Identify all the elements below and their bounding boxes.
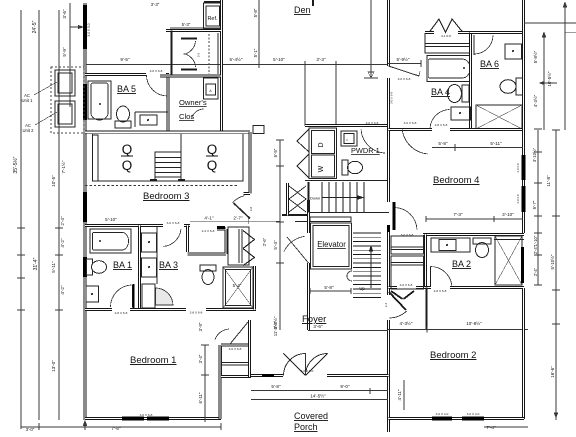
right dim ticks: [534, 129, 560, 324]
BA4 divider wall: [469, 33, 472, 131]
bedroom1 east wall: [219, 345, 222, 419]
BA4 south wall: [389, 128, 471, 131]
BA2 vanity: [431, 238, 470, 252]
bedroom4 dim line: [432, 147, 523, 149]
porch door leaves: [284, 354, 328, 376]
porch door black: [333, 374, 345, 377]
svg-text:3-0 X 6-8: 3-0 X 6-8: [167, 221, 180, 225]
pwdr toilet: [342, 160, 348, 175]
svg-text:3'-3": 3'-3": [316, 57, 326, 62]
hall niche box: [253, 126, 264, 134]
bathtub BA5: [88, 81, 111, 119]
bedroom4 door leaf: [393, 202, 396, 230]
porch dim line 1: [251, 388, 388, 394]
BA3 wc room walls: [188, 229, 227, 254]
svg-text:5'-8": 5'-8": [324, 285, 334, 290]
AC unit 1 box: [55, 70, 75, 96]
svg-text:5'-11": 5'-11": [490, 141, 502, 146]
bedroom3 south dashed: [85, 185, 238, 187]
laundry bifold W: [297, 129, 309, 178]
BA3 linen bar: [132, 284, 134, 308]
bed footboard 1: [150, 179, 157, 181]
hall bifold V doors: [391, 291, 414, 299]
porch dim line 2: [251, 399, 388, 401]
b1 hall east wall: [248, 320, 251, 377]
b2 bottom dim line: [484, 426, 528, 428]
bathtub BA5 drain: [99, 103, 101, 105]
dim arrow left top: [70, 25, 83, 28]
svg-text:6'-5": 6'-5": [273, 148, 278, 157]
east wall ref/owners: [220, 0, 223, 131]
svg-text:BA 1: BA 1: [113, 260, 132, 270]
dim rail far left: [20, 10, 22, 420]
closetA door stub top: [181, 38, 197, 40]
stairs newel: [347, 271, 352, 281]
bedroom4 window bar 2: [522, 186, 526, 212]
hall door arc (bedroom4 wing): [402, 128, 428, 154]
laundry box: [309, 128, 337, 179]
porch wall east: [327, 374, 389, 377]
owners clos bottom wall: [160, 75, 221, 78]
elevator door arc: [284, 236, 305, 251]
AC unit 2 box: [55, 101, 75, 127]
ref inner: [206, 6, 220, 26]
closetA door stub bot: [181, 69, 197, 71]
svg-text:5'-4½": 5'-4½": [230, 56, 243, 62]
stairs upper border: [309, 212, 390, 214]
BA5 north wall: [85, 73, 169, 76]
toilet BA1: [87, 259, 93, 275]
svg-text:3'-9": 3'-9": [198, 322, 203, 331]
BA3 wc toilet: [200, 265, 216, 271]
svg-text:7'-6": 7'-6": [111, 426, 121, 431]
BA6 shower: [476, 105, 522, 129]
svg-text:3-0 X 6-8: 3-0 X 6-8: [400, 283, 413, 287]
den se door leaf: [389, 66, 420, 76]
BA3 wc west wall: [186, 226, 189, 253]
BA6 south wall: [470, 128, 524, 131]
laundry south wall: [305, 180, 390, 182]
svg-text:Ref.: Ref.: [207, 16, 218, 22]
bathtub BA1: [90, 229, 131, 253]
svg-text:5'-1": 5'-1": [253, 48, 258, 57]
svg-text:5'-4": 5'-4": [233, 283, 242, 288]
stair hall closet X doors: [289, 186, 306, 212]
svg-text:3-0 X 6-8: 3-0 X 6-8: [366, 121, 379, 125]
svg-text:4'-3½": 4'-3½": [400, 320, 413, 326]
svg-text:2'-6": 2'-6": [262, 237, 267, 246]
right arrow bottom: [554, 413, 557, 418]
svg-text:2-8: 2-8: [249, 207, 253, 212]
svg-text:35'-5½": 35'-5½": [12, 156, 19, 173]
BA6 sink: [505, 44, 522, 59]
svg-text:9'-5": 9'-5": [120, 57, 130, 62]
svg-text:9'-0": 9'-0": [340, 384, 350, 389]
top dim line: [170, 27, 221, 29]
right rail line: [555, 130, 557, 420]
svg-text:10'-8½": 10'-8½": [466, 320, 482, 326]
den se door arc: [419, 72, 420, 76]
bottom arrow: [83, 421, 86, 426]
porch top dim line: [308, 330, 388, 332]
svg-text:3'-3": 3'-3": [151, 2, 160, 7]
central east wall: [387, 0, 390, 432]
BA1 vanity: [86, 286, 99, 302]
svg-text:5'-8": 5'-8": [438, 141, 448, 146]
svg-text:31'-4": 31'-4": [33, 257, 39, 270]
porch dim rail r: [403, 380, 405, 410]
dim rail left 3: [58, 10, 60, 420]
bathtub BA4 drain: [463, 67, 465, 69]
svg-text:3'-6": 3'-6": [62, 9, 67, 19]
owners door arc: [191, 109, 203, 119]
svg-text:2'-4": 2'-4": [533, 267, 538, 276]
hall door leaf+arc: [389, 292, 406, 310]
BA4 door arc: [430, 110, 449, 129]
pwdr sink: [341, 131, 357, 146]
french doors BA4: [429, 19, 463, 33]
dim rail left 2: [38, 10, 40, 420]
stair hall closet: [286, 183, 289, 216]
svg-text:3-0 X 6-8: 3-0 X 6-8: [150, 69, 163, 73]
BA2 north wall: [423, 233, 524, 236]
svg-text:3'-10": 3'-10": [502, 212, 514, 217]
BA1 door arc: [111, 285, 132, 307]
right dim rail 3: [565, 31, 576, 33]
svg-text:2-4 X 6-8: 2-4 X 6-8: [202, 229, 215, 233]
svg-text:BA 3: BA 3: [159, 260, 178, 270]
svg-text:5'-8": 5'-8": [271, 384, 281, 389]
svg-text:A: A: [209, 89, 212, 93]
svg-text:4'-3½": 4'-3½": [533, 94, 538, 107]
svg-text:3'-4": 3'-4": [198, 354, 203, 363]
bedroom2 east wall: [522, 288, 525, 419]
BA1 south wall: [85, 308, 142, 311]
stairs up arrow: [369, 246, 372, 288]
bed 1 QQ line: [121, 155, 133, 157]
den witness line 1: [304, 65, 306, 127]
AC leader 1: [34, 82, 57, 95]
top wall above ref: [204, 1, 222, 3]
AC pad dashed outline: [51, 67, 84, 133]
BA1/BA3 divider wall: [138, 226, 141, 311]
svg-text:7'-1½": 7'-1½": [60, 160, 66, 173]
svg-text:W: W: [318, 165, 325, 172]
svg-text:11'-5½": 11'-5½": [273, 321, 278, 336]
b1 closet top wall: [221, 344, 248, 347]
closetA right wall: [217, 33, 219, 74]
right arrow top: [542, 2, 566, 37]
foyer dim line: [310, 288, 351, 294]
BA6 toilet: [516, 78, 523, 95]
closetA rod: [208, 34, 210, 74]
svg-text:BA 2: BA 2: [452, 259, 471, 269]
svg-text:Covered: Covered: [294, 411, 328, 421]
stair wall black bar: [387, 225, 390, 232]
hall closet 1: [391, 236, 424, 254]
den top stub: [312, 0, 314, 6]
svg-text:5'-4": 5'-4": [273, 240, 278, 250]
attic box inner: [206, 84, 216, 95]
AC unit 2 inner: [58, 104, 72, 124]
BA3 bifold doors: [243, 231, 255, 266]
svg-text:Bedroom 1: Bedroom 1: [130, 355, 176, 366]
den dim rail right: [370, 0, 372, 78]
svg-text:4'-2": 4'-2": [60, 285, 65, 295]
attic box A: [204, 78, 219, 99]
closetA left wall: [171, 31, 173, 77]
bed 1 outline: [93, 134, 156, 181]
svg-text:Porch: Porch: [294, 422, 318, 432]
svg-text:13'-0": 13'-0": [51, 360, 56, 372]
svg-text:3-0 X 4-0: 3-0 X 4-0: [436, 412, 449, 416]
stairs lower treads: [353, 233, 381, 298]
svg-text:4'-2": 4'-2": [60, 238, 65, 248]
BA5 sink: [140, 115, 157, 125]
BA1 north wall: [85, 224, 190, 227]
elevator door leaf: [287, 237, 309, 263]
bedroom4 east wall: [522, 0, 525, 233]
svg-text:7'-4": 7'-4": [486, 425, 496, 430]
foyer west wall: [307, 200, 310, 330]
svg-text:1'-10": 1'-10": [533, 235, 538, 246]
bottom dim line: [21, 426, 221, 428]
svg-text:Den: Den: [294, 5, 311, 15]
svg-text:Bedroom 3: Bedroom 3: [143, 191, 189, 202]
svg-text:4'-11": 4'-11": [397, 389, 402, 400]
toilet BA5: [117, 106, 130, 122]
svg-text:3-0 X 6-8: 3-0 X 6-8: [140, 413, 153, 417]
ref box: [204, 3, 223, 29]
svg-text:3'-6": 3'-6": [313, 324, 323, 329]
BA2 shower niche: [494, 239, 524, 241]
BA2 south wall: [389, 286, 525, 289]
b1 window bar 1: [122, 417, 144, 421]
porch window bar: [262, 374, 274, 377]
svg-text:Q: Q: [122, 142, 133, 157]
BA3 sink top: [142, 233, 157, 252]
svg-text:5'-7": 5'-7": [532, 200, 537, 209]
hall dim rail: [279, 140, 281, 330]
bedroom4 window bar 1: [522, 155, 526, 180]
den dim line: [86, 64, 388, 66]
stairs bedroom3: [155, 152, 181, 181]
BA5 door arc: [147, 75, 168, 96]
dim ticks den: [221, 61, 336, 68]
BA4 toilet: [462, 85, 469, 102]
svg-text:Owner's: Owner's: [179, 98, 207, 107]
svg-text:5'-8½": 5'-8½": [533, 50, 538, 63]
BA3 sink bottom: [142, 258, 157, 277]
hall closet 2: [391, 256, 424, 289]
BA2 door arc: [431, 267, 453, 289]
hall wall segment: [282, 214, 309, 216]
BA6 door arc: [475, 36, 493, 54]
svg-text:2'-4": 2'-4": [533, 245, 538, 254]
svg-text:5'-11": 5'-11": [51, 261, 56, 273]
dim line den right: [388, 60, 421, 67]
BA3 wc dark bar: [217, 226, 225, 229]
svg-text:4'-1": 4'-1": [204, 216, 214, 221]
window bar west 2 (BA5 tub wall): [83, 84, 87, 120]
svg-text:3'-10½": 3'-10½": [532, 147, 537, 162]
svg-text:10'-5½": 10'-5½": [547, 71, 552, 86]
svg-text:24'-5": 24'-5": [32, 20, 38, 33]
svg-text:5'-8": 5'-8": [253, 8, 258, 17]
window bar west 1: [83, 5, 87, 49]
svg-text:Q: Q: [122, 158, 133, 173]
window bar west 3: [83, 192, 87, 222]
BA6 top wall: [470, 31, 524, 34]
svg-text:2-8 X 6-8: 2-8 X 6-8: [115, 311, 128, 315]
BA3 linen north closet: [228, 227, 249, 265]
bedroom2 dim line: [388, 327, 528, 333]
svg-text:2-8 X 6-8: 2-8 X 6-8: [434, 289, 447, 293]
svg-text:Q: Q: [207, 158, 218, 173]
hall dim line: [190, 218, 280, 224]
den witness line 2: [335, 65, 337, 127]
b2 window bar 2: [462, 417, 484, 421]
hall north wall (bedrm3): [85, 131, 250, 134]
b1 closet south wall: [221, 375, 251, 378]
laundry north wall: [305, 124, 390, 127]
BA3 shower: [223, 267, 253, 308]
AC leader 2: [35, 112, 57, 125]
b1 closet box: [222, 346, 251, 377]
window bar west 4: [83, 257, 87, 277]
svg-text:D: D: [318, 142, 325, 147]
b1 hall door arc: [215, 329, 229, 340]
svg-text:3-0 X 6-8: 3-0 X 6-8: [390, 92, 394, 104]
west wall: [84, 3, 87, 420]
svg-text:5'-10": 5'-10": [273, 57, 285, 62]
svg-text:10'-5": 10'-5": [51, 175, 56, 187]
b1 window bar 2: [147, 417, 169, 421]
svg-text:Bedroom 4: Bedroom 4: [433, 175, 479, 186]
BA2 west wall: [424, 235, 427, 290]
BA2 shower glass bar: [521, 247, 524, 283]
BA4 vanity: [451, 107, 471, 120]
b1 hall door leaf: [230, 322, 248, 344]
svg-text:7'-3": 7'-3": [453, 212, 463, 217]
svg-text:Down: Down: [310, 196, 320, 201]
BA3 east wall: [253, 266, 256, 310]
svg-text:Elevator: Elevator: [317, 240, 346, 249]
BA3 sinks counter: [156, 227, 158, 284]
bathtub BA4: [427, 56, 471, 82]
elevator box: [311, 223, 352, 269]
bedroom4 door arc: [395, 208, 417, 230]
dryer box: [312, 131, 335, 154]
svg-text:Bedroom 2: Bedroom 2: [430, 350, 476, 361]
bedroom2 south wall: [389, 417, 525, 420]
closetA top wall: [166, 29, 221, 32]
BA3 linen小 room: [142, 284, 155, 308]
right dim rail 1: [537, 130, 539, 285]
ba4 closet box: [425, 33, 470, 53]
washer box: [312, 155, 335, 177]
top dim line ba2: [426, 216, 523, 222]
svg-text:5'-3": 5'-3": [182, 22, 191, 27]
pwdr door arc: [361, 130, 385, 153]
svg-text:3-1 6-8: 3-1 6-8: [441, 34, 451, 38]
AC unit 1 inner: [58, 73, 72, 93]
b1 dim rail: [204, 345, 206, 422]
svg-text:BA 6: BA 6: [480, 59, 499, 69]
bed 2 outline: [181, 134, 243, 181]
svg-text:2-8 X 6-8: 2-8 X 6-8: [190, 311, 203, 315]
svg-text:2-8 X 6-8: 2-8 X 6-8: [435, 123, 448, 127]
svg-text:3-0 6-8: 3-0 6-8: [516, 163, 520, 173]
svg-text:BA 5: BA 5: [117, 84, 136, 94]
svg-text:2-4: 2-4: [384, 303, 388, 308]
svg-text:Unit 2: Unit 2: [23, 128, 35, 133]
porch french doors: [284, 354, 328, 376]
den dim rail: [258, 0, 260, 64]
svg-text:2-6: 2-6: [197, 53, 201, 58]
svg-text:3-0 X 6-8: 3-0 X 6-8: [398, 77, 411, 81]
svg-text:5'-10": 5'-10": [105, 217, 117, 222]
BA3 door fan: [156, 288, 174, 305]
svg-text:3-0 X 6-8: 3-0 X 6-8: [229, 347, 242, 351]
svg-text:3-0 6-8: 3-0 6-8: [516, 194, 520, 204]
elevator threshold: [310, 217, 351, 222]
svg-text:Up: Up: [359, 286, 365, 291]
bed footboard 2: [178, 179, 185, 181]
bedroom1 south wall: [85, 417, 221, 420]
svg-text:3'-0": 3'-0": [26, 427, 35, 432]
svg-text:11'-8": 11'-8": [546, 175, 551, 187]
hall closet west wall: [426, 288, 428, 331]
porch wall west: [251, 374, 283, 377]
svg-text:Unit 1: Unit 1: [22, 98, 34, 103]
b2 window bar 1: [432, 417, 452, 421]
svg-text:5'-9": 5'-9": [62, 47, 67, 57]
stairwell top wall: [308, 182, 310, 212]
svg-text:3-0 X 5-0: 3-0 X 5-0: [87, 23, 91, 36]
svg-text:14'-5½": 14'-5½": [310, 393, 326, 399]
BA5 east wall: [167, 75, 170, 132]
bathtub BA1 drain: [99, 240, 101, 242]
svg-text:Q: Q: [207, 142, 218, 157]
svg-text:5'-9½": 5'-9½": [397, 56, 410, 62]
bedroom3 door arc: [233, 196, 245, 203]
svg-text:6'-11": 6'-11": [198, 392, 203, 403]
svg-text:5'-10½": 5'-10½": [550, 254, 555, 269]
svg-text:16'-6": 16'-6": [550, 366, 555, 378]
svg-text:5-0 X 8-0: 5-0 X 8-0: [301, 369, 314, 373]
ba4 closet top wall: [425, 31, 470, 34]
dim ticks left: [17, 228, 63, 310]
BA5 vanity counter: [135, 111, 168, 113]
hall tick: [276, 222, 284, 263]
dim rail left 4: [69, 3, 71, 107]
svg-text:2'-7": 2'-7": [233, 216, 243, 221]
svg-text:3-0 X 4-0: 3-0 X 4-0: [467, 412, 480, 416]
bedroom3 east wall: [244, 132, 251, 194]
BA2 toilet: [473, 238, 491, 244]
BA3 entry arc: [164, 229, 181, 246]
bed 2 QQ line: [206, 155, 218, 157]
svg-text:3-0 X 6-8: 3-0 X 6-8: [404, 121, 417, 125]
BA2 shower: [495, 236, 522, 285]
closetA door arc bot: [184, 54, 196, 67]
BA3 south wall: [142, 308, 256, 311]
svg-text:2'-4": 2'-4": [60, 216, 65, 226]
stairs upper (down) risers: [322, 182, 364, 212]
closetA door arc top: [184, 41, 196, 55]
